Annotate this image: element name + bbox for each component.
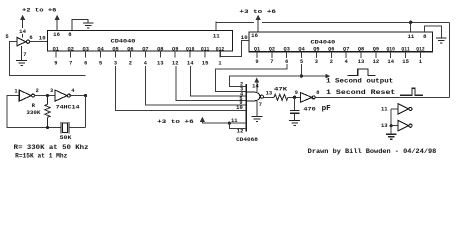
wire U1a input from feedback <box>10 42 86 76</box>
svg-text:1: 1 <box>218 61 221 67</box>
inverter U1f unused <box>398 104 412 115</box>
node junction 1 second output <box>300 74 303 77</box>
svg-text:Q4: Q4 <box>298 47 305 53</box>
svg-text:6: 6 <box>29 34 32 41</box>
wire U1f input <box>391 108 398 110</box>
svg-text:CD4040: CD4040 <box>111 38 136 45</box>
node junction pins 11 12 <box>228 122 231 125</box>
svg-text:9: 9 <box>54 61 57 67</box>
svg-text:pF: pF <box>322 105 332 113</box>
U3 pin numbers row <box>255 59 422 65</box>
resistor 47K <box>274 94 288 100</box>
wire capacitor to ground <box>294 114 296 120</box>
node junction oscillator mid <box>46 94 49 97</box>
arrowhead 1 second output <box>326 74 331 78</box>
svg-text:8: 8 <box>316 90 319 96</box>
IC U2 CD4040 box <box>48 30 233 51</box>
node junction reset to U3 pin 11 <box>409 21 412 24</box>
IC U4 CD4068 input bar <box>245 84 247 132</box>
IC U3 CD4040 box <box>249 32 433 52</box>
U2 output pin stubs <box>56 51 220 58</box>
svg-text:+3 to +6: +3 to +6 <box>157 118 194 125</box>
svg-text:330K: 330K <box>26 109 41 116</box>
wire U3 Q3 to U4 pin 3 <box>216 64 287 91</box>
svg-text:3: 3 <box>114 61 117 67</box>
wire resistor to buffer <box>288 96 301 98</box>
svg-text:7: 7 <box>69 61 72 67</box>
node junction RC <box>293 96 296 99</box>
wire U1a output to U2 pin 10 <box>30 41 48 43</box>
U3 output pin stubs <box>257 52 421 58</box>
svg-text:3: 3 <box>50 88 53 94</box>
svg-text:50K: 50K <box>60 134 73 141</box>
svg-text:+3 to +6: +3 to +6 <box>239 8 276 15</box>
svg-text:1 Second output: 1 Second output <box>326 78 394 85</box>
svg-text:3: 3 <box>315 59 318 65</box>
ground for U1a pin 7 <box>16 60 27 65</box>
U3 output labels Q1-Q12 <box>254 47 425 53</box>
node junction oscillator output <box>84 94 87 97</box>
wire reset line to right rail <box>315 96 449 98</box>
svg-text:16: 16 <box>53 31 60 38</box>
svg-text:15: 15 <box>402 59 409 65</box>
wire U4 pin 12 <box>229 123 246 128</box>
svg-text:7: 7 <box>259 102 262 108</box>
node +V supply label top-left <box>0 0 1 1</box>
waveform wide pulse output <box>347 69 375 76</box>
power arrow to U4 pin 14 <box>254 77 259 92</box>
node junction unused inputs <box>390 124 393 127</box>
svg-text:Q5: Q5 <box>313 47 319 53</box>
wire pin14 to inverter top <box>22 34 24 38</box>
svg-text:R= 330K at 50 Khz: R= 330K at 50 Khz <box>14 144 89 151</box>
svg-text:11: 11 <box>408 33 416 40</box>
svg-text:Q1: Q1 <box>254 47 260 53</box>
ground for capacitor <box>289 120 300 125</box>
svg-text:1: 1 <box>419 59 422 65</box>
svg-text:7: 7 <box>270 59 273 65</box>
wire U4 pin 11 <box>202 122 246 124</box>
wire reset rail down right side <box>448 22 450 97</box>
svg-text:15: 15 <box>202 61 209 67</box>
svg-text:9: 9 <box>295 90 298 96</box>
U4 NAND gate body <box>246 92 260 101</box>
wire U1b input <box>391 125 398 127</box>
inverter U1b unused <box>398 120 412 131</box>
svg-text:+2 to +6: +2 to +6 <box>22 6 57 13</box>
U2 output labels Q1-Q12 <box>53 47 225 53</box>
svg-text:13: 13 <box>266 90 273 96</box>
wire U1d out to U1e in <box>35 95 55 97</box>
wire U2 pin 8 to ground <box>72 20 88 31</box>
wire U2 Q7 to U4 pin 9 <box>145 66 246 105</box>
wire U2 Q5 to U4 pin 10 <box>115 66 246 111</box>
wire junction down to U3 pin 11 <box>410 22 412 32</box>
svg-text:Q6: Q6 <box>328 47 334 53</box>
power arrow to U4 pins 11 12 <box>200 117 205 124</box>
inverter U1c buffer <box>301 93 315 103</box>
svg-text:Q12: Q12 <box>416 47 424 53</box>
svg-text:Q8: Q8 <box>358 47 364 53</box>
inverter U1e 74HC14 <box>55 90 70 101</box>
svg-text:10: 10 <box>241 34 248 41</box>
crystal 50K resonator <box>61 122 69 134</box>
svg-text:Q9: Q9 <box>373 47 379 53</box>
svg-text:13: 13 <box>157 61 164 67</box>
wire U3 Q4 down to output node <box>300 64 302 76</box>
svg-text:Q2: Q2 <box>269 47 275 53</box>
svg-text:12: 12 <box>237 128 244 134</box>
svg-text:11: 11 <box>381 106 388 112</box>
svg-text:Q3: Q3 <box>284 47 290 53</box>
wire U2 Q10 to U4 pin 4 <box>191 66 247 96</box>
svg-text:CD4040: CD4040 <box>311 39 336 46</box>
svg-text:1: 1 <box>14 89 17 95</box>
wire U2 pin 11 to reset rail <box>215 21 217 30</box>
ground for U3 pin 8 <box>436 38 447 43</box>
svg-text:2: 2 <box>36 88 39 94</box>
svg-text:5: 5 <box>99 61 102 67</box>
svg-text:470: 470 <box>303 105 315 112</box>
wire U4 pin 7 to ground <box>256 101 258 116</box>
wire oscillator output down to crystal <box>85 96 87 128</box>
svg-text:Q11: Q11 <box>401 47 409 53</box>
inverter U1d 74HC14 <box>19 90 34 101</box>
svg-text:10: 10 <box>236 105 243 111</box>
U2 pin numbers row <box>54 61 221 67</box>
svg-text:14: 14 <box>387 59 394 65</box>
svg-text:Drawn by Bill Bowden - 04/24/9: Drawn by Bill Bowden - 04/24/98 <box>308 148 437 155</box>
capacitor 470 pF <box>290 111 300 114</box>
svg-text:12: 12 <box>373 59 380 65</box>
wire output node to arrow <box>301 75 326 77</box>
power arrow to CD4040 U3 pin 16 <box>255 15 260 32</box>
node junction resistor bottom <box>46 126 49 129</box>
oscillator inverter U1d input wire <box>7 96 61 128</box>
wire clock link U2 Q12 to U3 pin 10 <box>220 40 249 56</box>
wire reset rail right segment <box>262 21 449 23</box>
waveform narrow pulse reset <box>400 88 423 95</box>
ground for U2 pin 8 <box>83 23 94 28</box>
svg-text:Q7: Q7 <box>343 47 349 53</box>
wire U1e out to feedback node <box>71 95 86 97</box>
svg-text:11: 11 <box>213 32 221 39</box>
wire crystal right lead <box>69 127 86 129</box>
U4 output bubble <box>260 95 263 98</box>
resistor R 330K vertical <box>45 96 50 128</box>
svg-text:9: 9 <box>255 59 258 65</box>
svg-text:14: 14 <box>252 84 259 90</box>
svg-text:2: 2 <box>129 61 132 67</box>
svg-text:10: 10 <box>39 34 46 41</box>
svg-text:74HC14: 74HC14 <box>56 103 81 110</box>
svg-text:13: 13 <box>381 123 388 129</box>
svg-text:14: 14 <box>187 61 194 67</box>
svg-text:1 Second Reset: 1 Second Reset <box>326 89 396 96</box>
wire U1a pin 7 to ground <box>21 46 23 60</box>
wire U3 pin 8 to ground <box>425 26 442 38</box>
svg-text:12: 12 <box>172 61 179 67</box>
svg-text:6: 6 <box>84 61 87 67</box>
svg-text:2: 2 <box>330 59 333 65</box>
wire U2 Q9 to U4 pin 5 <box>176 66 246 101</box>
wire node to capacitor <box>294 97 296 110</box>
inverter U1a 74HC14 <box>17 37 30 46</box>
wire output node to U4 pin 2 <box>230 76 302 86</box>
svg-text:CD4068: CD4068 <box>236 136 259 143</box>
svg-text:47K: 47K <box>274 85 288 92</box>
power arrow to CD4040 U2 pin 16 <box>54 15 59 31</box>
wire reset rail left segment <box>216 21 254 23</box>
ground for unused inputs <box>386 134 397 139</box>
svg-text:Q10: Q10 <box>387 47 395 53</box>
ground for U4 pin 7 <box>252 116 263 121</box>
svg-text:R=15K at 1 Mhz: R=15K at 1 Mhz <box>15 153 67 160</box>
wire unused inputs vertical <box>390 109 392 134</box>
svg-text:13: 13 <box>358 59 365 65</box>
power arrow to 74HC14 pin 14 <box>20 15 25 28</box>
svg-text:7: 7 <box>23 51 26 58</box>
wire U4 output to resistor <box>264 96 274 98</box>
svg-text:16: 16 <box>251 32 258 39</box>
